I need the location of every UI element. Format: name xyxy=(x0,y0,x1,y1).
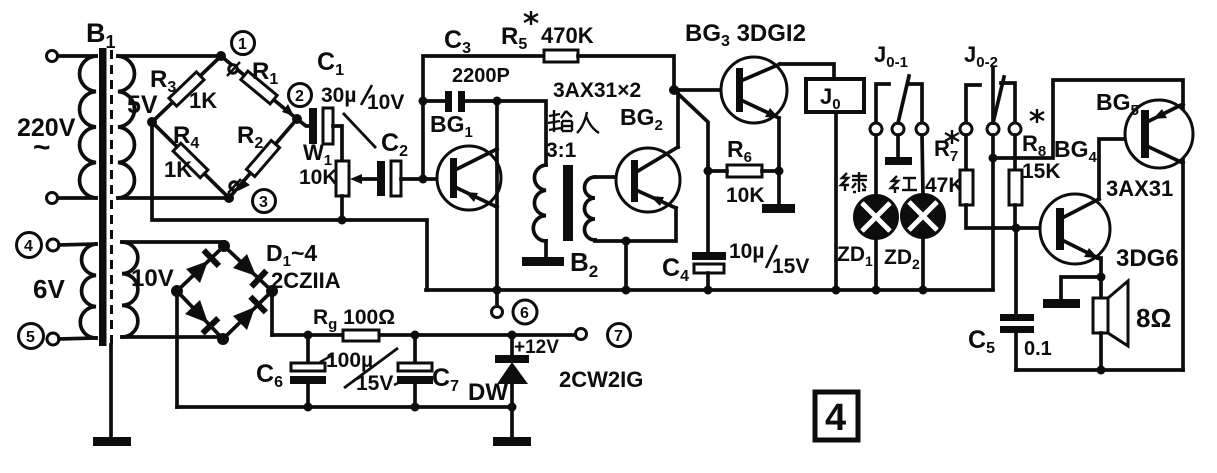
trimmer arrow near node 2 xyxy=(282,104,294,116)
transformer B2 core xyxy=(563,165,573,241)
label 10u/15V xyxy=(729,240,809,278)
transformer B1 secondary 5V winding xyxy=(118,56,134,198)
label 10V xyxy=(131,265,174,292)
wire base node down to C5 xyxy=(1014,228,1018,316)
svg-text:1: 1 xyxy=(238,36,247,53)
label R7 xyxy=(934,136,958,165)
svg-text:10V: 10V xyxy=(131,265,174,292)
main bus wire xyxy=(426,288,993,292)
label 2200P xyxy=(452,65,510,87)
label 6V xyxy=(33,274,65,304)
wire speaker to bottom rail xyxy=(1099,333,1103,370)
transformer B2 primary winding xyxy=(533,165,546,241)
svg-text:100µ: 100µ xyxy=(326,349,373,372)
junction dot bridge dc right xyxy=(266,285,278,297)
label Rg 100ohm xyxy=(313,306,395,333)
label R3 xyxy=(150,66,176,96)
transformer B1 core xyxy=(99,48,112,346)
junction dot bridge dc left xyxy=(171,285,183,297)
label C5 xyxy=(968,326,995,357)
svg-text:2CZIIA: 2CZIIA xyxy=(271,268,341,293)
label J0-1 xyxy=(874,42,908,71)
junction dot emitter node xyxy=(1097,273,1106,282)
junction dot bridge ac bottom xyxy=(217,333,229,345)
svg-text:6V: 6V xyxy=(33,274,65,304)
resistor R4 wire xyxy=(152,122,229,198)
junction dot bridge right node 2 xyxy=(292,114,302,124)
wire top feedback line to R5 xyxy=(423,56,544,101)
svg-text:2200P: 2200P xyxy=(452,65,510,87)
wire R5 to BG3 base node xyxy=(578,56,674,90)
resistor R6 body xyxy=(708,165,779,177)
label 100u 15V xyxy=(320,348,404,395)
junction dot bus C4 xyxy=(704,286,713,295)
junction dot BG3 base node xyxy=(669,85,679,95)
wire W1 to rail xyxy=(340,196,344,220)
wire vertical base node to C3 node xyxy=(421,101,425,179)
label R8 xyxy=(1022,131,1046,160)
diode D4 bottom-right xyxy=(233,297,266,330)
junction dot ZD2 bus xyxy=(919,286,928,295)
svg-text:2CW2IG: 2CW2IG xyxy=(559,367,643,392)
junction dot bridge left xyxy=(147,117,157,127)
junction dot ZD1 bus xyxy=(872,286,881,295)
transistor BG1 xyxy=(437,146,501,210)
node 6 circled xyxy=(513,300,537,324)
node 7 circled xyxy=(608,324,631,347)
svg-text:10K: 10K xyxy=(299,166,338,189)
capacitor C4 xyxy=(692,252,726,290)
ground B2 xyxy=(522,257,564,266)
label hong (red) xyxy=(891,176,917,193)
resistor R2 body xyxy=(246,141,279,177)
wire bridge right to plus rail xyxy=(270,291,274,335)
junction dot C7 bottom xyxy=(411,403,420,412)
diode D1 top-left xyxy=(186,250,219,283)
svg-text:~: ~ xyxy=(33,131,51,164)
label 3AX31 xyxy=(1106,176,1173,201)
label R6 xyxy=(727,136,752,166)
svg-text:BG3 3DGI2: BG3 3DGI2 xyxy=(685,20,806,50)
node 2 circled xyxy=(289,84,312,107)
svg-text:3: 3 xyxy=(259,194,268,211)
junction dot bridge top xyxy=(216,51,226,61)
label 47K xyxy=(925,174,964,197)
junction dot BG4 base node xyxy=(1012,224,1021,233)
rectifier bridge edges xyxy=(177,246,272,339)
potentiometer W1 body xyxy=(336,161,349,196)
junction dot base node xyxy=(419,175,428,184)
label W1 xyxy=(303,140,332,169)
resistor R2 wire xyxy=(229,119,297,198)
wire lamp ZD2 bottom to bus xyxy=(921,237,925,290)
resistor R5 body xyxy=(544,50,578,62)
svg-text:+12V: +12V xyxy=(514,337,559,358)
svg-text:6: 6 xyxy=(520,305,529,322)
label B1 xyxy=(86,18,116,52)
diode D2 top-right xyxy=(233,254,266,287)
junction dot speaker bottom xyxy=(1097,366,1106,375)
terminal 6 stub xyxy=(492,290,503,318)
svg-text:10µ: 10µ xyxy=(729,240,764,263)
capacitor C1 xyxy=(309,108,333,144)
svg-text:3:1: 3:1 xyxy=(546,139,577,162)
label BG3 3DGI2 xyxy=(685,20,806,50)
svg-text:4: 4 xyxy=(825,397,846,439)
svg-text:1K: 1K xyxy=(164,157,192,182)
junction dot bridge ac top xyxy=(218,240,230,252)
label C2 xyxy=(381,129,408,160)
wire B2 secondary top to BG2 base xyxy=(595,175,631,179)
relay J0-1 armature bar xyxy=(885,135,912,165)
label shuru (input) xyxy=(548,110,599,133)
svg-text:8Ω: 8Ω xyxy=(1136,303,1171,333)
label 3DG6 xyxy=(1116,245,1179,272)
wire BG4 emitter node xyxy=(1098,258,1101,298)
label +12V xyxy=(514,337,559,358)
wire node diagonal to R6 xyxy=(674,90,708,171)
resistor R4 body xyxy=(173,143,208,178)
label 2CZ11A xyxy=(271,268,341,293)
junction dot C6 bottom xyxy=(304,403,313,412)
speaker xyxy=(1093,281,1128,346)
junction dot bus J0 xyxy=(832,286,841,295)
label C7 xyxy=(432,364,459,395)
label 2CW2IG xyxy=(559,367,643,392)
label ZD1 xyxy=(837,243,873,269)
junction dot R6 right xyxy=(775,167,784,176)
junction dot bridge bottom xyxy=(224,193,234,203)
label D1~4 xyxy=(266,240,317,270)
wire BG4 collector to BG5 base xyxy=(1099,139,1141,199)
wire terminal to 6V winding top xyxy=(59,244,96,245)
wire 10V bottom to bridge xyxy=(122,335,223,339)
relay contact J0-1 right fixed xyxy=(908,84,928,135)
resistor R3 body xyxy=(169,72,204,106)
svg-text:3AX31×2: 3AX31×2 xyxy=(553,79,641,102)
terminal 6V bottom xyxy=(47,333,59,345)
wire lamp ZD1 top xyxy=(874,135,878,196)
relay contact J0-1 moving arm xyxy=(892,76,909,135)
ground BG3 xyxy=(762,204,795,213)
wire bridge left to bottom rail xyxy=(175,291,179,407)
junction dot J0-2 feed xyxy=(989,154,998,163)
label 10K R6 xyxy=(726,184,765,207)
transformer B1 6V winding xyxy=(80,244,96,338)
label R2 xyxy=(237,122,263,152)
wire bridge left node down and across to bus xyxy=(152,122,427,290)
junction dot C7 top xyxy=(411,331,420,340)
zener DW xyxy=(495,335,529,437)
relay contact J0-2 moving arm xyxy=(987,68,1004,135)
junction dot DW bottom rail xyxy=(508,403,517,412)
capacitor C6 xyxy=(290,335,326,407)
resistor R7 xyxy=(960,135,1014,228)
wire C2 to BG1 base xyxy=(401,177,451,181)
svg-text:10V: 10V xyxy=(367,91,404,114)
wire B2 primary to ground xyxy=(544,241,548,258)
junction dot R6 left xyxy=(704,167,713,176)
label 10K W1 xyxy=(299,166,338,189)
wire BG2 collector up to node xyxy=(676,90,680,147)
terminal 220V top xyxy=(47,51,58,62)
resistor Rg body xyxy=(343,330,379,341)
junction dot C6 top xyxy=(304,331,313,340)
terminal 7 circle xyxy=(576,329,587,340)
svg-text:47K: 47K xyxy=(925,174,964,197)
transistor BG3 xyxy=(721,57,787,123)
resistor R1 wire xyxy=(221,56,297,119)
wire 5V top to bridge node 1 xyxy=(118,54,221,58)
asterisk R8 xyxy=(1030,109,1044,123)
svg-text:15V: 15V xyxy=(772,255,809,278)
capacitor C5 xyxy=(1000,314,1034,370)
svg-text:5V: 5V xyxy=(127,91,158,119)
label BG2 xyxy=(620,104,663,134)
transistor BG4 xyxy=(1040,194,1110,264)
ground DW xyxy=(493,437,531,446)
label 30u/10V xyxy=(321,84,404,114)
relay contact J0-2 right fixed xyxy=(1001,83,1021,135)
node 3 circled xyxy=(253,190,276,213)
ground B1 xyxy=(93,437,131,446)
junction dot emitter at bus xyxy=(493,286,502,295)
label 220V xyxy=(17,114,76,164)
label BG4 xyxy=(1054,136,1098,166)
junction dot DW top xyxy=(508,331,517,340)
capacitor C3 xyxy=(423,91,497,112)
diode D3 bottom-left xyxy=(185,300,218,333)
wire BG3 collector to relay J0 xyxy=(780,64,834,79)
resistor R3 wire xyxy=(152,56,221,122)
label 1K lower xyxy=(164,157,192,182)
lamp ZD2 xyxy=(902,195,945,238)
wire J0-2 common down to bus xyxy=(991,135,995,289)
core ground stem xyxy=(109,345,113,437)
label 470K xyxy=(541,23,594,48)
svg-text:30µ: 30µ xyxy=(321,84,356,107)
asterisk R7 xyxy=(945,130,959,144)
wire BG3 emitter to ground xyxy=(777,118,781,204)
svg-text:15K: 15K xyxy=(1022,160,1061,183)
bottom rail xyxy=(177,405,512,409)
relay contact J0-2 left fixed xyxy=(960,85,980,135)
node 5 circled xyxy=(19,324,44,349)
label 15K xyxy=(1022,160,1061,183)
right edge vertical to BG5 collector xyxy=(1181,157,1185,370)
label lv (green) xyxy=(841,172,867,192)
label 0.1 xyxy=(1024,338,1052,360)
junction dot W1 bottom on rail xyxy=(338,216,347,225)
label BG1 xyxy=(430,111,473,141)
label 8ohm xyxy=(1136,303,1171,333)
wire terminal to 6V winding bottom xyxy=(59,338,96,339)
label 3:1 xyxy=(546,139,577,162)
label C6 xyxy=(256,360,283,391)
trimmer tap circle on R1 xyxy=(227,62,240,76)
bottom right rail xyxy=(1016,368,1183,372)
trimmer arrow near node 3 xyxy=(238,179,250,191)
wiper arrow into W1 xyxy=(350,174,378,184)
junction dot collector node xyxy=(493,97,502,106)
wire emitter node down to bus xyxy=(624,241,628,290)
wire lamp ZD1 bottom to bus xyxy=(874,238,878,290)
label J0-2 xyxy=(964,42,998,71)
svg-text:10K: 10K xyxy=(726,184,765,207)
node 4 circled xyxy=(17,233,42,258)
relay coil box J0 xyxy=(806,79,864,113)
terminal 6V top xyxy=(47,239,59,251)
wire B2 secondary bottom to emitter xyxy=(595,208,676,241)
svg-text:3DG6: 3DG6 xyxy=(1116,245,1179,272)
junction dot on emitter wire xyxy=(622,237,631,246)
transistor BG5 xyxy=(1125,100,1193,168)
wire node2 to C1 xyxy=(297,119,310,126)
wire feed to BG5 emitter supply xyxy=(993,80,1183,158)
svg-text:D1~4: D1~4 xyxy=(266,240,317,270)
label DW xyxy=(468,379,508,406)
svg-text:470K: 470K xyxy=(541,23,594,48)
label ZD2 xyxy=(884,246,920,272)
wire 10V top to bridge xyxy=(122,242,224,246)
junction dot C3 left node xyxy=(419,97,428,106)
label R4 xyxy=(173,122,199,152)
svg-text:15V: 15V xyxy=(356,372,393,395)
wire J0 to bus xyxy=(834,112,838,290)
svg-text:4: 4 xyxy=(24,238,33,255)
plus 12V rail xyxy=(272,333,575,337)
svg-text:1K: 1K xyxy=(189,88,217,113)
terminal 220V bottom xyxy=(47,193,58,204)
svg-text:7: 7 xyxy=(614,328,623,345)
label C3 xyxy=(444,26,471,57)
wire 5V bottom to bridge node 3 xyxy=(118,196,229,200)
wire 220V bottom to primary xyxy=(58,196,96,200)
svg-text:DW: DW xyxy=(468,379,508,406)
wire C4 branch xyxy=(706,171,710,252)
label C1 xyxy=(317,48,344,79)
label 1K upper xyxy=(189,88,217,113)
node 1 circled xyxy=(232,32,255,55)
wire 220V top to primary xyxy=(58,54,96,58)
wire collector node to B2 primary xyxy=(497,101,546,165)
label R1 xyxy=(252,58,278,88)
label 3AX31x2 xyxy=(553,79,641,102)
svg-text:Rg 100Ω: Rg 100Ω xyxy=(313,306,395,333)
label C4 xyxy=(662,254,689,285)
wire lamp ZD2 top xyxy=(922,135,923,195)
svg-text:0.1: 0.1 xyxy=(1024,338,1052,360)
transformer B1 10V winding xyxy=(122,242,138,337)
wire node to BG3 base xyxy=(674,88,736,92)
transistor BG2 xyxy=(616,147,680,212)
wire C1 to W1 top xyxy=(333,126,342,161)
svg-text:5: 5 xyxy=(26,329,35,346)
lamp ZD1 xyxy=(855,196,898,239)
resistor R8 xyxy=(1009,135,1022,228)
label BG5 xyxy=(1096,89,1139,119)
label R5 xyxy=(501,23,527,53)
transformer B2 secondary winding xyxy=(585,177,596,240)
annotation leader line xyxy=(343,113,376,148)
relay contact J0-1 left fixed xyxy=(870,84,889,135)
capacitor C2 xyxy=(377,161,401,196)
asterisk R5 xyxy=(524,11,538,25)
capacitor C7 xyxy=(397,335,433,407)
trimmer tap circle on R2 xyxy=(228,179,241,193)
figure number box 4 xyxy=(815,392,858,440)
resistor R1 body xyxy=(241,71,277,104)
transformer B1 primary winding xyxy=(80,56,96,198)
svg-text:2: 2 xyxy=(295,88,304,105)
svg-text:3AX31: 3AX31 xyxy=(1106,176,1173,201)
label 5V xyxy=(127,91,158,119)
wire BG1 collector-emitter vertical xyxy=(495,101,499,291)
junction dot bus B2 xyxy=(622,286,631,295)
wire base node to BG4 xyxy=(1016,226,1056,230)
label B2 xyxy=(570,247,598,281)
ground BG4 xyxy=(1043,277,1101,308)
